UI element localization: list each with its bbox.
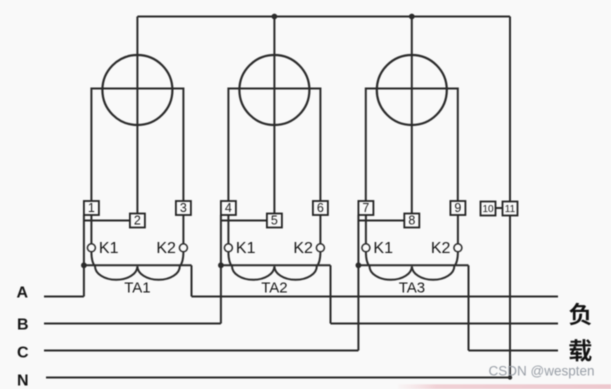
svg-text:10: 10	[482, 204, 494, 215]
label K1 of TA2	[236, 240, 256, 257]
wire: jumper terminal 10 to terminal 11	[495, 207, 504, 209]
label phase A	[17, 285, 29, 302]
terminal 10	[481, 202, 496, 216]
meter element M1 (circle)	[102, 55, 172, 125]
svg-text:K1: K1	[99, 240, 119, 257]
svg-text:TA3: TA3	[399, 280, 425, 297]
svg-text:K1: K1	[373, 240, 393, 257]
K1 terminal of TA2	[224, 244, 232, 252]
label K2 of TA3	[431, 240, 451, 257]
svg-text:K1: K1	[236, 240, 256, 257]
svg-text:2: 2	[134, 214, 141, 228]
label phase B	[17, 317, 29, 334]
label K2 of TA1	[156, 240, 176, 257]
junction: bus / M3 voltage lead	[409, 14, 415, 20]
svg-text:4: 4	[225, 201, 232, 215]
meter element M3 (circle)	[377, 55, 447, 125]
wire: terminal 7 lead down to K1 of TA3	[365, 214, 367, 244]
terminal 9	[450, 201, 465, 215]
terminal 6	[313, 201, 328, 215]
CT TA3 secondary winding	[366, 252, 458, 280]
svg-text:1: 1	[88, 201, 95, 215]
K2 terminal of TA2	[316, 244, 324, 252]
wire: phase C outgoing to load	[469, 350, 559, 352]
terminal 7	[358, 201, 373, 215]
wire: M2 voltage-coil lead (bus to terminal 5)	[273, 17, 275, 216]
watermark CSDN @wespten	[489, 364, 595, 379]
junction: phase tap at TA1 primary	[81, 262, 87, 268]
label K2 of TA2	[293, 240, 313, 257]
svg-text:A: A	[17, 285, 29, 302]
CT TA2 secondary winding	[228, 252, 320, 280]
terminal 3	[176, 201, 191, 215]
wire: neutral N line	[46, 377, 510, 379]
svg-text:5: 5	[271, 214, 278, 228]
wire: terminal 1 lead down to K1 of TA1	[90, 214, 92, 244]
decor: pink bottom strip	[398, 384, 611, 389]
terminal 2	[130, 214, 145, 228]
K2 terminal of TA1	[179, 244, 187, 252]
svg-text:TA1: TA1	[124, 280, 150, 297]
svg-text:6: 6	[317, 201, 324, 215]
label load 载	[569, 339, 591, 362]
CT TA1 primary conductor	[84, 264, 192, 266]
wire: M1 voltage-coil lead (bus to terminal 2)	[136, 17, 138, 216]
svg-text:N: N	[17, 373, 29, 389]
svg-text:K2: K2	[431, 240, 451, 257]
wire: voltage tap drop at TA1 (terminal 1 side down to phase line)	[83, 215, 85, 297]
meter element M2 (circle)	[239, 55, 309, 125]
label TA1	[124, 280, 150, 297]
wire: terminal 3 lead down to K2 of TA1	[182, 214, 184, 244]
K1 terminal of TA3	[362, 244, 370, 252]
wire: M1 current bar with legs to terminals 1 and 3	[91, 89, 183, 203]
wire: M3 voltage-coil lead (bus to terminal 8)	[411, 17, 413, 216]
wire: TA2 primary output drop to load line	[330, 265, 332, 323]
wire: phase C incoming	[44, 350, 358, 352]
svg-text:B: B	[17, 317, 29, 334]
CT TA1 secondary winding	[91, 252, 183, 280]
svg-text:K2: K2	[293, 240, 313, 257]
K1 terminal of TA1	[87, 244, 95, 252]
svg-text:C: C	[17, 345, 29, 362]
label load 负	[569, 303, 591, 326]
label K1 of TA1	[99, 240, 119, 257]
wire: M2 current bar with legs to terminals 4 and 6	[228, 89, 320, 203]
junction: phase tap at TA3 primary	[356, 262, 362, 268]
wire: TA3 primary output drop to load line	[468, 265, 470, 350]
label TA2	[261, 280, 287, 297]
svg-text:9: 9	[454, 201, 461, 215]
terminal 11	[503, 202, 518, 216]
svg-text:3: 3	[180, 201, 187, 215]
terminal 4	[221, 201, 236, 215]
terminal 1	[84, 201, 99, 215]
label phase C	[17, 345, 29, 362]
wire: phase A incoming	[44, 296, 84, 298]
wire: jumper terminal 1 to terminal 2	[84, 220, 132, 222]
label K1 of TA3	[373, 240, 393, 257]
wire: voltage tap drop at TA3 (terminal 7 side down to phase line)	[357, 215, 359, 351]
wire: voltage tap drop at TA2 (terminal 4 side down to phase line)	[220, 215, 222, 324]
wire: terminal 9 lead down to K2 of TA3	[457, 214, 459, 244]
wire: terminal 4 lead down to K1 of TA2	[227, 214, 229, 244]
wire: jumper terminal 4 to terminal 5	[221, 220, 269, 222]
svg-text:8: 8	[408, 214, 415, 228]
K2 terminal of TA3	[454, 244, 462, 252]
terminal 8	[404, 214, 419, 228]
svg-text:CSDN @wespten: CSDN @wespten	[489, 364, 595, 379]
wire: terminal 6 lead down to K2 of TA2	[319, 214, 321, 244]
junction: phase tap at TA2 primary	[218, 262, 224, 268]
wire: top voltage common bus	[137, 16, 510, 18]
wire: phase B outgoing to load	[331, 323, 559, 325]
svg-text:TA2: TA2	[261, 280, 287, 297]
wire: TA1 primary output drop to load line	[191, 265, 193, 296]
wire: phase A outgoing to load	[192, 296, 559, 298]
terminal 5	[267, 214, 282, 228]
junction: bus / M2 voltage lead	[272, 14, 278, 20]
wire: jumper terminal 7 to terminal 8	[358, 220, 406, 222]
svg-text:7: 7	[362, 201, 369, 215]
svg-text:11: 11	[505, 204, 516, 215]
label neutral N	[17, 373, 29, 389]
junction: neutral / bus drop	[508, 375, 512, 379]
CT TA2 primary conductor	[221, 264, 331, 266]
svg-text:K2: K2	[156, 240, 176, 257]
wire: bus right drop to terminal 11 and neutral	[509, 17, 511, 378]
label TA3	[399, 280, 425, 297]
wire: phase B incoming	[44, 323, 221, 325]
wire: M3 current bar with legs to terminals 7 and 9	[366, 89, 458, 203]
CT TA3 primary conductor	[358, 264, 468, 266]
